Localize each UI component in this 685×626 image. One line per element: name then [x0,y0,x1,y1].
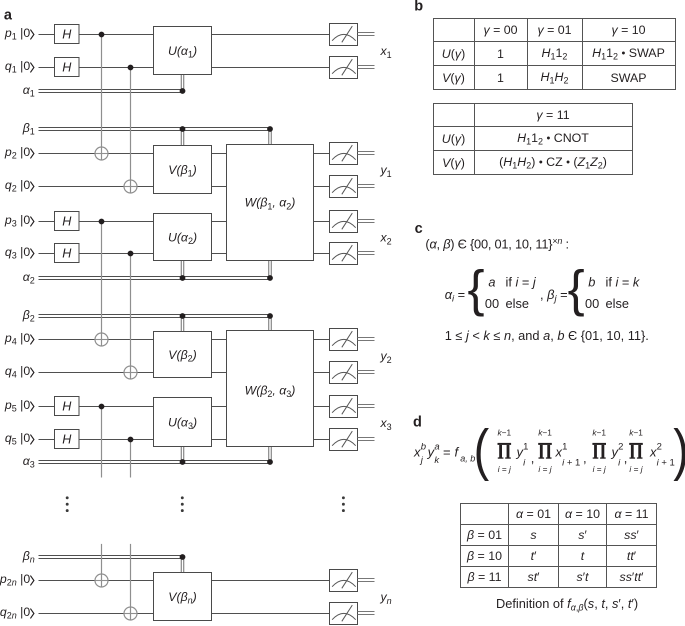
classical link beta1-V(beta1) [181,129,184,146]
ellipsis middle [181,496,184,512]
panel label d [413,414,422,430]
junction dot beta1-V1 [180,126,186,132]
svg-text:f: f [455,445,460,460]
junction dot alpha3-U3 [180,459,186,465]
vertical control line p1-p2 [101,35,103,161]
wire p5 H-to-U [79,406,154,408]
svg-text:i: i [618,458,621,469]
label q5 ket [5,431,34,447]
wire q2 W-to-meter [314,186,330,188]
junction dot alpha2-U2 [180,275,186,281]
equation c beta_j cases lhs [540,287,568,305]
label p1 ket [4,26,34,42]
comma separator [624,451,628,466]
vertical control line q1-q2 [130,68,132,194]
classical link W2-alpha3 [269,447,272,463]
wire p3 lead-in [39,221,55,223]
product symbol at x=599.2 [592,428,607,474]
measurement meter q2n [330,603,358,625]
equation c alpha_i cases lhs [445,287,465,305]
comma separator [583,451,587,466]
wire q2 lead-in [39,186,154,188]
classical output double line from meter q2n [358,612,375,615]
classical wire alpha2 [39,277,272,280]
wire q4 W-to-meter [314,372,330,374]
product operand y^2_i [611,442,624,469]
wire q3 H-to-U [79,253,154,255]
svg-text:α2: α2 [23,270,35,286]
ellipsis left [66,496,69,512]
svg-text:k: k [434,455,440,466]
H gate on q1 [55,58,80,77]
label p3 ket [4,213,34,229]
wire p1 H-to-U [79,34,154,36]
classical output double line from meter p4 [358,338,375,341]
junction dot beta2-V2 [180,313,186,319]
svg-text:if i = j: if i = j [506,274,537,289]
svg-text:p5 |0: p5 |0 [4,398,30,414]
label q4 ket [5,364,34,380]
product symbol at x=545.0 [538,428,553,474]
wire p1 lead-in [39,34,55,36]
output label y1 [380,163,392,179]
wire p3 H-to-U [79,221,154,223]
classical wire beta2 [39,315,272,318]
classical output double line from meter q4 [358,371,375,374]
svg-text:i = j: i = j [629,464,643,474]
wire q2 V-to-W [212,186,227,188]
wire q2n lead-in [39,613,154,615]
svg-text:else: else [606,296,629,311]
classical link beta2-W2 [269,316,272,331]
control dot on p1 [99,32,105,38]
svg-text:a: a [4,7,13,23]
svg-text:x2: x2 [380,231,392,247]
vertical control line p5 stub [101,407,103,478]
vertical control line p2n stub [101,544,103,587]
junction dot betan-Vn [180,554,186,560]
svg-text:1: 1 [523,442,528,453]
svg-text:y2: y2 [380,349,392,365]
CNOT target on p4 [95,333,108,346]
beta case row2 [585,296,629,311]
label alpha2 [23,270,35,286]
svg-text:1 ≤ j < k ≤ n, and a, b Є {01,: 1 ≤ j < k ≤ n, and a, b Є {01, 10, 11}. [445,328,649,343]
output label y2 [380,349,392,365]
svg-text:else: else [506,296,529,311]
measurement meter p2n [330,570,358,592]
equation c domain line [425,236,568,252]
svg-text:p3 |0: p3 |0 [4,213,30,229]
classical wire alpha3 [39,461,272,464]
svg-text:H: H [62,400,72,414]
svg-text:2: 2 [657,442,662,453]
output label yn [380,590,392,606]
gate box W(beta1,alpha2) [227,145,314,261]
measurement meter p4 [330,329,358,351]
alpha case row2 [485,296,529,311]
wire p1 U-to-meter [212,34,330,36]
svg-text:H: H [62,247,72,261]
svg-text:H: H [62,215,72,229]
H gate on p1 [55,25,80,44]
svg-text:,: , [624,451,628,466]
svg-text:β2: β2 [22,308,35,324]
svg-text:c: c [415,221,423,237]
vertical control line q2n stub [130,544,132,620]
equation d lhs x_j^b y_k^a = f_ab [413,442,475,467]
CNOT target on q2 [124,180,137,193]
H gate on q3 [55,244,80,263]
svg-text:p2n |0: p2n |0 [0,572,30,588]
vertical control line p3-p4 [101,222,103,347]
CNOT target on q4 [124,366,137,379]
wire p2 V-to-W [212,153,227,155]
wire p3 U-to-W [212,221,227,223]
classical wire alpha1 [39,90,185,93]
svg-text:H: H [62,28,72,42]
measurement meter q5 [330,429,358,451]
wire p4 V-to-W [212,339,227,341]
svg-text:k−1: k−1 [629,428,643,438]
svg-text:U(α3): U(α3) [168,415,197,431]
svg-text:q1 |0: q1 |0 [5,59,30,75]
svg-text:x1: x1 [380,44,392,60]
control dot on q1 [128,65,134,71]
svg-text:i = j: i = j [498,464,512,474]
brace alpha cases [468,260,485,317]
product operand x^1_i + 1 [555,442,581,469]
wire q5 lead-in [39,439,55,441]
label p5 ket [4,398,34,414]
svg-text:p2 |0: p2 |0 [4,145,30,161]
measurement meter p5 [330,396,358,418]
big right paren [673,418,685,481]
classical output double line from meter p1 [358,33,375,36]
label beta2 [22,308,35,324]
measurement meter p1 [330,24,358,46]
svg-text:y1: y1 [380,163,392,179]
gate box U(alpha1) [154,27,212,75]
junction dot alpha3-W2 [267,459,273,465]
wire q1 lead-in [39,67,55,69]
svg-text:d: d [413,414,422,430]
label q2 ket [5,178,34,194]
wire p2n V-to-meter [212,580,330,582]
vertical control line q3-q4 [130,254,132,380]
svg-text:i = j: i = j [593,464,607,474]
junction dot beta1-W1 [267,126,273,132]
junction dot alpha2-W1 [267,275,273,281]
svg-text:β1: β1 [22,121,35,137]
svg-text:b: b [588,274,595,289]
classical link W1-alpha2 [269,261,272,279]
svg-text:k−1: k−1 [592,428,606,438]
product operand x^2_i + 1 [649,442,675,469]
svg-text:i + 1: i + 1 [562,458,580,469]
classical wire beta1 [39,128,272,131]
svg-text:a: a [488,274,495,289]
svg-text:q2 |0: q2 |0 [5,178,30,194]
CNOT target on p2 [95,147,108,160]
product symbol at x=636.0 [629,428,644,474]
output label x1 [380,44,392,60]
wire q1 U-to-meter [212,67,330,69]
classical output double line from meter q1 [358,66,375,69]
svg-text:i: i [523,458,526,469]
wire q2n V-to-meter [212,613,330,615]
label p4 ket [4,331,34,347]
svg-text:1: 1 [562,442,567,453]
svg-text:(: ( [474,418,490,481]
measurement meter q3 [330,243,358,265]
H gate on q5 [55,430,80,449]
svg-text:k−1: k−1 [497,428,511,438]
svg-text:q4 |0: q4 |0 [5,364,30,380]
measurement meter q4 [330,362,358,384]
svg-text:H: H [62,61,72,75]
svg-text:b: b [421,442,426,453]
svg-text:U(α2): U(α2) [168,230,197,246]
product symbol at x=504.3 [497,428,512,474]
label beta1 [22,121,35,137]
classical wire betan [39,556,185,559]
CNOT target on q2n [124,607,137,620]
gate box V(betan) [154,573,212,621]
wire p4 lead-in [39,339,154,341]
equation c constraint line [445,328,649,343]
classical output double line from meter q3 [358,252,375,255]
panel label b [414,0,423,15]
classical link betan-V(betan) [181,557,184,573]
label q3 ket [5,245,34,261]
H gate on p5 [55,397,80,416]
label alpha3 [23,454,35,470]
table b1 gamma 00/01/10 [433,18,676,91]
table b2 gamma 11 [433,103,633,176]
wire p2 lead-in [39,153,154,155]
panel label a [4,7,13,23]
vertical control line q5 stub [130,440,132,478]
gate box W(beta2,alpha3) [227,331,314,447]
wire p5 U-to-W [212,406,227,408]
wire q1 H-to-U [79,67,154,69]
svg-text:=: = [443,445,451,460]
wire q5 U-to-W [212,439,227,441]
classical link beta1-W1 [269,129,272,145]
classical output double line from meter p3 [358,220,375,223]
gate box U(alpha2) [154,214,212,261]
caption of table d [496,596,638,613]
wire q3 lead-in [39,253,55,255]
svg-text:,: , [531,451,535,466]
measurement meter p2 [330,143,358,165]
classical output double line from meter q2 [358,185,375,188]
svg-text:,: , [583,451,587,466]
big left paren [474,418,490,481]
svg-text:q2n |0: q2n |0 [0,605,30,621]
wire p5 W-to-meter [314,406,330,408]
H gate on p3 [55,212,80,231]
svg-text:{: { [468,260,485,317]
svg-text:00: 00 [585,296,599,311]
svg-text:V(β1): V(β1) [168,163,196,179]
classical link U(alpha2)-alpha2 [181,261,184,279]
wire q4 lead-in [39,372,154,374]
gate box V(beta2) [154,332,212,378]
brace beta cases [568,260,585,317]
label betan [22,549,35,565]
svg-text:b: b [414,0,423,15]
alpha case row1 [488,274,537,289]
beta case row1 [588,274,640,289]
svg-text:α3: α3 [23,454,35,470]
gate box V(beta1) [154,146,212,194]
comma separator [531,451,535,466]
svg-text:p4 |0: p4 |0 [4,331,30,347]
svg-text:x3: x3 [380,416,392,432]
product operand y^1_i [516,442,529,469]
label p2 ket [4,145,34,161]
control dot on q5 [128,437,134,443]
svg-text:V(βn): V(βn) [168,590,196,606]
junction dot beta2-W2 [267,313,273,319]
measurement meter q1 [330,57,358,79]
wire p2n lead-in [39,580,154,582]
svg-text:if i = k: if i = k [606,274,640,289]
svg-text:V(β2): V(β2) [168,348,196,364]
wire q3 W-to-meter [314,253,330,255]
svg-text:2: 2 [618,442,623,453]
wire q5 W-to-meter [314,439,330,441]
ellipsis right [342,496,345,512]
table d f_ab definition [460,503,657,588]
svg-text:βn: βn [22,549,35,565]
svg-text:αi =: αi = [445,287,465,305]
wire p2 W-to-meter [314,153,330,155]
svg-text:x: x [413,445,421,460]
junction dot alpha1-U1 [180,88,186,94]
control dot on q3 [128,251,134,257]
classical link beta2-V(beta2) [181,316,184,332]
svg-text:(α, β) Є {00, 01, 10, 11}×n :: (α, β) Є {00, 01, 10, 11}×n : [425,236,568,252]
label alpha1 [23,83,35,99]
wire p5 lead-in [39,406,55,408]
svg-text:H: H [62,433,72,447]
measurement meter q2 [330,176,358,198]
wire p4 W-to-meter [314,339,330,341]
label q2n ket [0,605,34,621]
svg-text:U(α1): U(α1) [168,44,197,60]
classical output double line from meter p2 [358,152,375,155]
control dot on p3 [99,219,105,225]
svg-text:p1 |0: p1 |0 [4,26,30,42]
control dot on p5 [99,404,105,410]
panel label c [415,221,423,237]
wire q3 U-to-W [212,253,227,255]
wire q5 H-to-U [79,439,154,441]
svg-text:00: 00 [485,296,499,311]
svg-text:q3 |0: q3 |0 [5,245,30,261]
output label x3 [380,416,392,432]
svg-text:i = j: i = j [538,464,552,474]
gate box U(alpha3) [154,398,212,447]
classical link U(alpha1)-alpha1 [181,75,184,92]
CNOT target on p2n [95,574,108,587]
svg-text:yn: yn [380,590,392,606]
classical link U(alpha3)-alpha3 [181,447,184,463]
measurement meter p3 [330,211,358,233]
svg-text:a: a [434,442,439,453]
svg-text:α1: α1 [23,83,35,99]
svg-text:, βj =: , βj = [540,287,568,305]
classical output double line from meter p2n [358,579,375,582]
wire p3 W-to-meter [314,221,330,223]
svg-text:i + 1: i + 1 [657,458,675,469]
svg-text:q5 |0: q5 |0 [5,431,30,447]
label q1 ket [5,59,34,75]
label p2n ket [0,572,34,588]
svg-text:{: { [568,260,585,317]
svg-text:): ) [673,418,685,481]
svg-text:k−1: k−1 [538,428,552,438]
classical output double line from meter q5 [358,438,375,441]
classical output double line from meter p5 [358,405,375,408]
output label x2 [380,231,392,247]
wire q4 V-to-W [212,372,227,374]
